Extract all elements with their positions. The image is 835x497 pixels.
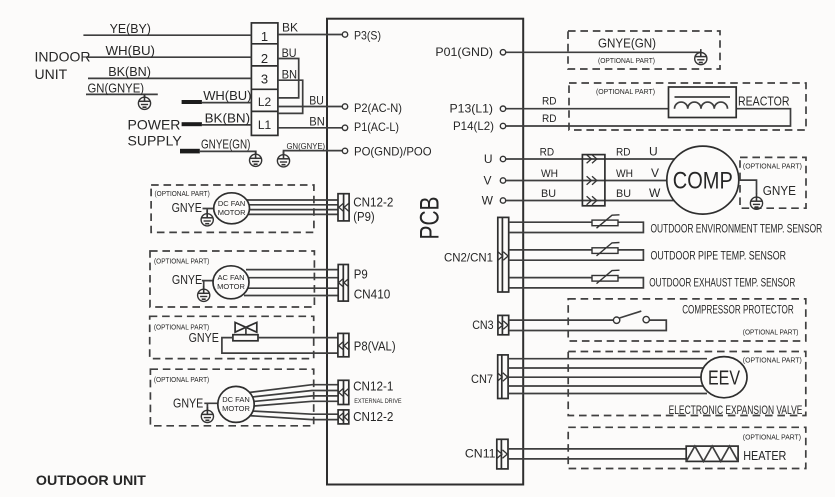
- svg-text:COMP: COMP: [673, 168, 733, 195]
- connector P9/CN410: [338, 265, 348, 302]
- svg-text:CN7: CN7: [471, 372, 493, 386]
- sensor 3 wires: [509, 278, 644, 288]
- thermistor 2: [592, 243, 620, 256]
- connector CN12-2: [338, 194, 349, 221]
- ground motor 4: [201, 407, 213, 423]
- wire terminal 2 to L2: [278, 59, 299, 98]
- valve wires: [258, 337, 338, 339]
- thick lead GNYE(GN): [180, 149, 200, 154]
- wire P14 return: [506, 109, 791, 126]
- svg-text:RD: RD: [540, 147, 555, 159]
- thick lead BK(BN): [182, 122, 202, 126]
- valve EEV: [701, 357, 747, 398]
- wire terminal 3 to L1: [278, 80, 303, 113]
- svg-text:GNYE: GNYE: [189, 330, 220, 345]
- optional box ac fan: [150, 251, 314, 307]
- svg-text:P01(GND): P01(GND): [435, 45, 493, 59]
- svg-text:L1: L1: [258, 118, 272, 132]
- terminal block outline: [251, 23, 278, 135]
- svg-text:CN12-1: CN12-1: [353, 379, 393, 394]
- valve coil box: [233, 335, 258, 341]
- svg-text:MOTOR: MOTOR: [218, 208, 246, 217]
- svg-text:(OPTIONAL PART): (OPTIONAL PART): [743, 358, 802, 365]
- svg-text:CN410: CN410: [354, 287, 391, 302]
- svg-text:BK(BN): BK(BN): [205, 110, 251, 125]
- node P14(L2): [500, 123, 505, 128]
- svg-text:OUTDOOR PIPE TEMP. SENSOR: OUTDOOR PIPE TEMP. SENSOR: [651, 248, 787, 262]
- svg-text:ELECTRONIC EXPANSION VALVE: ELECTRONIC EXPANSION VALVE: [669, 403, 803, 417]
- thick lead WH(BU): [182, 100, 202, 104]
- motor AC FAN: [213, 266, 249, 299]
- wire W phase: [506, 200, 675, 202]
- svg-text:DC FAN: DC FAN: [218, 199, 246, 208]
- svg-text:HEATER: HEATER: [743, 448, 786, 463]
- sensor 1 wires: [509, 222, 644, 232]
- wire BK(BN) indoor: [88, 77, 251, 79]
- optional box EEV: [568, 352, 806, 416]
- svg-text:V: V: [651, 166, 659, 180]
- svg-text:GNYE: GNYE: [172, 272, 203, 287]
- svg-text:L2: L2: [258, 95, 272, 109]
- svg-text:AC FAN: AC FAN: [217, 273, 244, 282]
- svg-text:MOTOR: MOTOR: [222, 404, 250, 413]
- wire GNYE(GN) power: [200, 151, 256, 154]
- svg-text:(P9): (P9): [353, 209, 375, 224]
- svg-text:CN2/CN1: CN2/CN1: [444, 250, 493, 264]
- svg-text:REACTOR: REACTOR: [738, 94, 790, 109]
- svg-text:P1(AC-L): P1(AC-L): [354, 120, 399, 134]
- wire BK(BN) power: [202, 124, 252, 126]
- svg-text:YE(BY): YE(BY): [110, 21, 151, 36]
- heater element: [686, 446, 738, 461]
- svg-text:GNYE(GN): GNYE(GN): [201, 136, 250, 151]
- protector switch wires: [509, 319, 614, 321]
- wire gnye to ground 2: [202, 281, 213, 289]
- svg-text:BU: BU: [541, 188, 556, 200]
- svg-text:POWER: POWER: [128, 117, 181, 133]
- node P1(AC-L): [342, 125, 347, 130]
- optional box dc fan 2: [150, 369, 313, 426]
- node W: [500, 198, 505, 203]
- svg-text:OUTDOOR EXHAUST TEMP. SENSOR: OUTDOOR EXHAUST TEMP. SENSOR: [649, 275, 795, 289]
- svg-text:INDOOR: INDOOR: [35, 49, 91, 65]
- connector CN12-2 lower: [338, 410, 349, 424]
- node U: [500, 156, 505, 161]
- svg-text:BN: BN: [282, 68, 298, 82]
- wire V phase: [506, 180, 670, 182]
- svg-text:P8(VAL): P8(VAL): [354, 339, 396, 354]
- optional box GNYE(GN): [568, 31, 720, 69]
- optional box protector: [568, 299, 806, 341]
- phase connector block: [582, 155, 605, 206]
- svg-text:SUPPLY: SUPPLY: [128, 133, 183, 149]
- svg-text:RD: RD: [542, 113, 557, 125]
- optional box dc fan 1: [151, 185, 314, 232]
- ground for GNYE(GN): [250, 151, 262, 167]
- wire BK to P3: [278, 34, 342, 36]
- wire U phase: [506, 158, 675, 160]
- svg-text:DC FAN: DC FAN: [222, 395, 250, 404]
- ground motor 2: [198, 286, 210, 302]
- svg-text:P2(AC-N): P2(AC-N): [354, 101, 402, 115]
- svg-text:PO(GND)/POO: PO(GND)/POO: [354, 145, 432, 159]
- svg-text:BN: BN: [309, 115, 325, 129]
- motor wires 2: [244, 270, 338, 296]
- svg-text:EXTERNAL DRIVE: EXTERNAL DRIVE: [354, 398, 402, 405]
- svg-text:GN(GNYE): GN(GNYE): [287, 141, 326, 151]
- motor wires 1: [246, 200, 338, 214]
- ground motor 1: [201, 210, 213, 226]
- optional box reactor: [569, 83, 806, 130]
- switch contacts: [613, 317, 619, 323]
- node P13(L1): [500, 106, 505, 111]
- wire gnye to ground 1: [203, 209, 215, 214]
- connector P8(VAL): [338, 333, 349, 356]
- svg-text:RD: RD: [542, 95, 557, 107]
- svg-text:(OPTIONAL PART): (OPTIONAL PART): [154, 257, 210, 266]
- wire GN(GNYE) indoor: [86, 93, 158, 95]
- motor wires to CN12-2: [247, 411, 338, 420]
- svg-text:U: U: [484, 152, 493, 166]
- node P01(GND): [500, 50, 505, 55]
- svg-text:P9: P9: [354, 267, 368, 282]
- svg-text:GNYE: GNYE: [172, 200, 203, 215]
- svg-text:1: 1: [261, 29, 268, 44]
- optional box valve: [150, 316, 314, 358]
- svg-text:CN11: CN11: [465, 447, 496, 461]
- svg-text:COMPRESSOR PROTECTOR: COMPRESSOR PROTECTOR: [682, 302, 794, 316]
- node V: [500, 178, 505, 183]
- wire WH(BU) indoor: [88, 56, 252, 58]
- svg-text:OUTDOOR UNIT: OUTDOOR UNIT: [36, 472, 146, 488]
- svg-text:BU: BU: [616, 188, 631, 200]
- connector CN12-1: [338, 380, 349, 404]
- svg-text:(OPTIONAL PART): (OPTIONAL PART): [743, 163, 802, 170]
- svg-text:(OPTIONAL PART): (OPTIONAL PART): [598, 56, 655, 65]
- svg-text:GNYE: GNYE: [763, 183, 797, 198]
- svg-text:(OPTIONAL PART): (OPTIONAL PART): [155, 189, 211, 198]
- terminal dividers: [251, 44, 278, 112]
- ground for PO wire: [277, 151, 289, 167]
- svg-text:BK: BK: [282, 21, 298, 35]
- wire L2 to P2: [278, 106, 342, 108]
- svg-text:W: W: [482, 194, 494, 208]
- wire YE(BY): [83, 34, 251, 36]
- thermistor 1: [592, 215, 620, 228]
- ground for GN(GNYE): [144, 94, 146, 97]
- svg-text:P14(L2): P14(L2): [453, 119, 494, 133]
- EEV wires: [508, 359, 707, 394]
- svg-text:WH(BU): WH(BU): [203, 88, 251, 103]
- svg-text:P13(L1): P13(L1): [450, 102, 494, 116]
- svg-text:GNYE(GN): GNYE(GN): [598, 36, 656, 51]
- wire comp to ground: [739, 180, 757, 194]
- optional box heater: [568, 427, 806, 468]
- node PO(GND)/POO: [342, 148, 347, 153]
- svg-text:OUTDOOR ENVIRONMENT TEMP. SENS: OUTDOOR ENVIRONMENT TEMP. SENSOR: [651, 222, 823, 236]
- motor DC FAN 1: [214, 193, 250, 224]
- node P2(AC-N): [342, 104, 347, 109]
- svg-text:UNIT: UNIT: [35, 66, 68, 82]
- svg-text:(OPTIONAL PART): (OPTIONAL PART): [154, 375, 210, 384]
- svg-text:P3(S): P3(S): [354, 28, 381, 42]
- optional box comp ground: [740, 157, 806, 208]
- ground in GNYE(GN) box: [695, 49, 707, 65]
- svg-text:WH(BU): WH(BU): [106, 43, 156, 58]
- svg-text:W: W: [649, 186, 661, 200]
- svg-text:RD: RD: [616, 147, 631, 159]
- svg-text:EEV: EEV: [708, 368, 741, 390]
- PCB outline: [327, 19, 523, 485]
- wire P01 to ground: [506, 51, 701, 53]
- svg-text:WH: WH: [541, 168, 558, 180]
- svg-text:(OPTIONAL PART): (OPTIONAL PART): [596, 87, 655, 96]
- svg-text:WH: WH: [616, 168, 633, 180]
- motor DC FAN 2: [218, 386, 254, 422]
- svg-text:V: V: [483, 174, 491, 188]
- svg-text:BK(BN): BK(BN): [108, 64, 151, 79]
- compressor COMP: [667, 146, 739, 214]
- reactor L1: [669, 87, 737, 118]
- svg-text:(OPTIONAL PART): (OPTIONAL PART): [743, 330, 799, 337]
- svg-text:PCB: PCB: [415, 197, 445, 240]
- wire WH(BU) power: [202, 102, 252, 104]
- svg-text:2: 2: [261, 51, 268, 66]
- valve bowtie: [235, 322, 257, 332]
- ground comp: [750, 194, 762, 210]
- svg-text:BU: BU: [309, 94, 324, 108]
- svg-text:CN12-2: CN12-2: [353, 195, 393, 210]
- node P3(S): [342, 32, 347, 37]
- thermistor 3: [592, 270, 620, 283]
- svg-text:(OPTIONAL PART): (OPTIONAL PART): [743, 434, 801, 441]
- svg-text:U: U: [649, 145, 658, 159]
- svg-text:CN3: CN3: [472, 318, 494, 332]
- svg-text:GNYE: GNYE: [173, 396, 204, 411]
- wire L1 to P1: [278, 127, 342, 129]
- motor wires to CN12-1: [249, 385, 338, 406]
- svg-text:CN12-2: CN12-2: [353, 409, 393, 424]
- svg-text:3: 3: [261, 72, 268, 87]
- wire ground to PO(GND)/POO: [284, 151, 343, 155]
- svg-text:GN(GNYE): GN(GNYE): [88, 81, 145, 96]
- wire P13 to reactor: [506, 108, 675, 110]
- wire gnye to ground 4: [204, 403, 217, 410]
- heater wires: [508, 448, 686, 450]
- svg-text:MOTOR: MOTOR: [217, 282, 245, 291]
- sensor 2 wires: [509, 250, 644, 260]
- svg-text:BU: BU: [282, 46, 297, 60]
